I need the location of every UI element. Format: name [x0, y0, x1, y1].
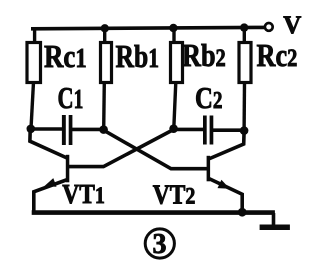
resistor Rc2 [239, 43, 251, 83]
node top of Rb1 [101, 24, 109, 32]
label VT1 [62, 180, 105, 210]
label V [283, 12, 301, 39]
node top of Rc2 [240, 23, 248, 31]
svg-text:Rc1: Rc1 [44, 40, 87, 75]
node B (base VT2 coupling) [99, 125, 108, 134]
label Rc1 [44, 40, 87, 75]
wire Rc1 bottom [31, 82, 34, 129]
wire node A to C1 [31, 127, 63, 131]
wire Rc2 bottom [242, 82, 246, 130]
svg-text:C2: C2 [195, 81, 223, 115]
wire node B to base VT2 (cross diagonal) [104, 130, 208, 169]
wire Rc1 top stub [33, 27, 36, 43]
label C1 [58, 80, 84, 114]
node D (collector VT2) [240, 126, 249, 135]
svg-text:3: 3 [153, 229, 167, 260]
label Rc2 [257, 39, 298, 74]
node A (collector VT1) [27, 125, 36, 134]
label C2 [195, 81, 223, 115]
svg-text:VT1: VT1 [62, 180, 105, 210]
wire C2 to node D [213, 128, 244, 132]
wire Rb1 bottom [102, 82, 106, 129]
node C (base VT1 coupling) [169, 124, 178, 133]
svg-text:V: V [283, 12, 301, 39]
transistor VT1 [30, 130, 69, 213]
label Rb1 [116, 39, 160, 74]
figure number 3 (circled) [145, 229, 174, 260]
wire Rc2 top stub [243, 27, 246, 43]
label Rb2 [182, 39, 226, 74]
resistor Rb2 [171, 43, 183, 83]
node top of Rb2 [169, 24, 177, 32]
wire Rb2 top stub [172, 27, 175, 43]
svg-text:Rb1: Rb1 [116, 39, 160, 74]
capacitor C2 [203, 116, 213, 145]
wire C1 to node B [72, 128, 104, 132]
svg-text:Rb2: Rb2 [182, 39, 226, 74]
transistor VT2 [207, 131, 245, 212]
svg-text:VT2: VT2 [153, 180, 196, 210]
wire bottom ground rail [32, 210, 275, 215]
ground [260, 213, 290, 227]
wire top supply rail [31, 27, 265, 28]
terminal V (open circle) [265, 23, 273, 31]
wire node C to base VT1 (cross diagonal) [69, 130, 174, 167]
wire Rb2 bottom [174, 82, 176, 129]
resistor Rb1 [101, 43, 112, 83]
resistor Rc1 [27, 43, 41, 83]
capacitor C1 [62, 115, 72, 145]
svg-text:Rc2: Rc2 [257, 39, 298, 74]
node emitter VT2 on rail [238, 208, 247, 217]
wire node C to C2 [174, 128, 204, 132]
wire Rb1 top stub [103, 27, 106, 43]
label VT2 [153, 180, 196, 210]
svg-text:C1: C1 [58, 80, 84, 114]
